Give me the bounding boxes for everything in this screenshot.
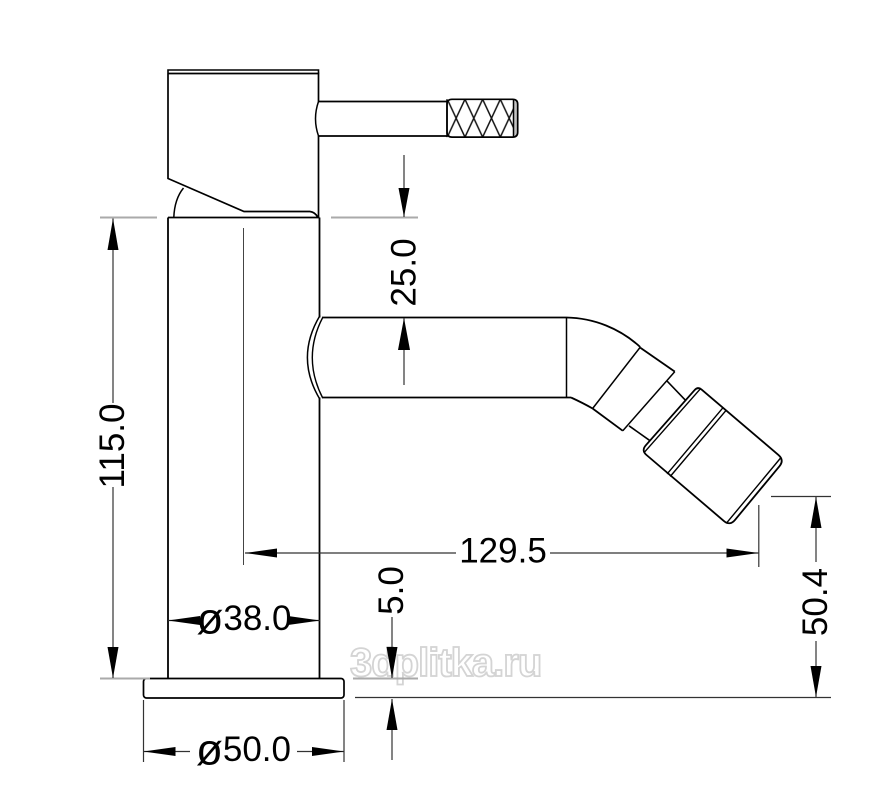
dimension 50.4 arrows — [811, 497, 822, 528]
svg-text:ø50.0: ø50.0 — [196, 725, 291, 774]
dimension diameter 50.0 arrows — [144, 747, 176, 756]
dimension 50.4 line — [815, 497, 817, 697]
aerator front rim line — [726, 458, 781, 524]
handle knurled grip — [447, 99, 518, 137]
faucet head body — [168, 74, 319, 218]
handle stem fillet on body edge — [316, 102, 319, 137]
dimension 129.5 extension right — [758, 505, 760, 567]
spout junction arcs — [307, 316, 320, 400]
svg-text:25.0: 25.0 — [385, 238, 424, 306]
svg-text:ø38.0: ø38.0 — [196, 594, 291, 643]
svg-text:5.0: 5.0 — [372, 566, 411, 615]
knurl end cap line — [447, 99, 514, 137]
handle stem — [319, 102, 448, 137]
column centerline — [243, 228, 245, 565]
svg-text:50.4: 50.4 — [796, 568, 835, 636]
neck bottom line — [629, 426, 650, 441]
spout bend joint line — [566, 318, 568, 398]
dimension 115.0 line — [112, 219, 114, 679]
extension tick bottom right (5.0) — [353, 678, 418, 680]
dimension 50.4 extension bottom — [355, 697, 831, 699]
aerator mid band lines — [667, 408, 726, 476]
column right edge — [319, 218, 321, 679]
diagonal tube outer edge — [640, 348, 675, 372]
dimension diameter 50.0 line — [144, 751, 345, 753]
svg-text:129.5: 129.5 — [459, 532, 547, 571]
extension tick top left (115.0) — [100, 217, 157, 219]
spout tube — [322, 318, 571, 398]
column top line — [168, 217, 320, 219]
dimension 129.5 line — [245, 552, 759, 554]
dimension 129.5 arrows — [245, 549, 277, 558]
column left edge — [167, 218, 169, 679]
dimension diameter 38.0 arrows — [168, 616, 200, 625]
neck top line — [667, 381, 687, 401]
dimension 5.0 line — [391, 617, 393, 760]
aerator back rim line — [644, 389, 701, 453]
spout bend outer arc — [567, 318, 641, 348]
diagonal tube inner edge — [593, 409, 623, 431]
dimension 25.0 arrows — [399, 188, 410, 217]
bend-end joint line 1 — [593, 348, 640, 409]
extension tick top right (25.0) — [331, 217, 418, 219]
faucet head top cap — [168, 70, 319, 74]
dimension 115.0 arrows — [108, 219, 119, 251]
extension tick bottom left (115.0) — [100, 678, 150, 680]
joint line 2 — [623, 372, 675, 431]
dimension diameter 50.0 extensions — [144, 700, 345, 762]
svg-text:115.0: 115.0 — [93, 404, 132, 489]
cartridge arc at head bottom-left — [174, 188, 184, 218]
aerator body — [644, 388, 782, 523]
base flange — [144, 679, 345, 699]
dimension 5.0 arrows — [387, 647, 398, 678]
dimension diameter 38.0 line — [168, 620, 320, 622]
dimension 50.4 extension top — [771, 496, 831, 498]
spout bend inner arc — [571, 398, 593, 409]
dimension 25.0 line — [403, 155, 405, 385]
